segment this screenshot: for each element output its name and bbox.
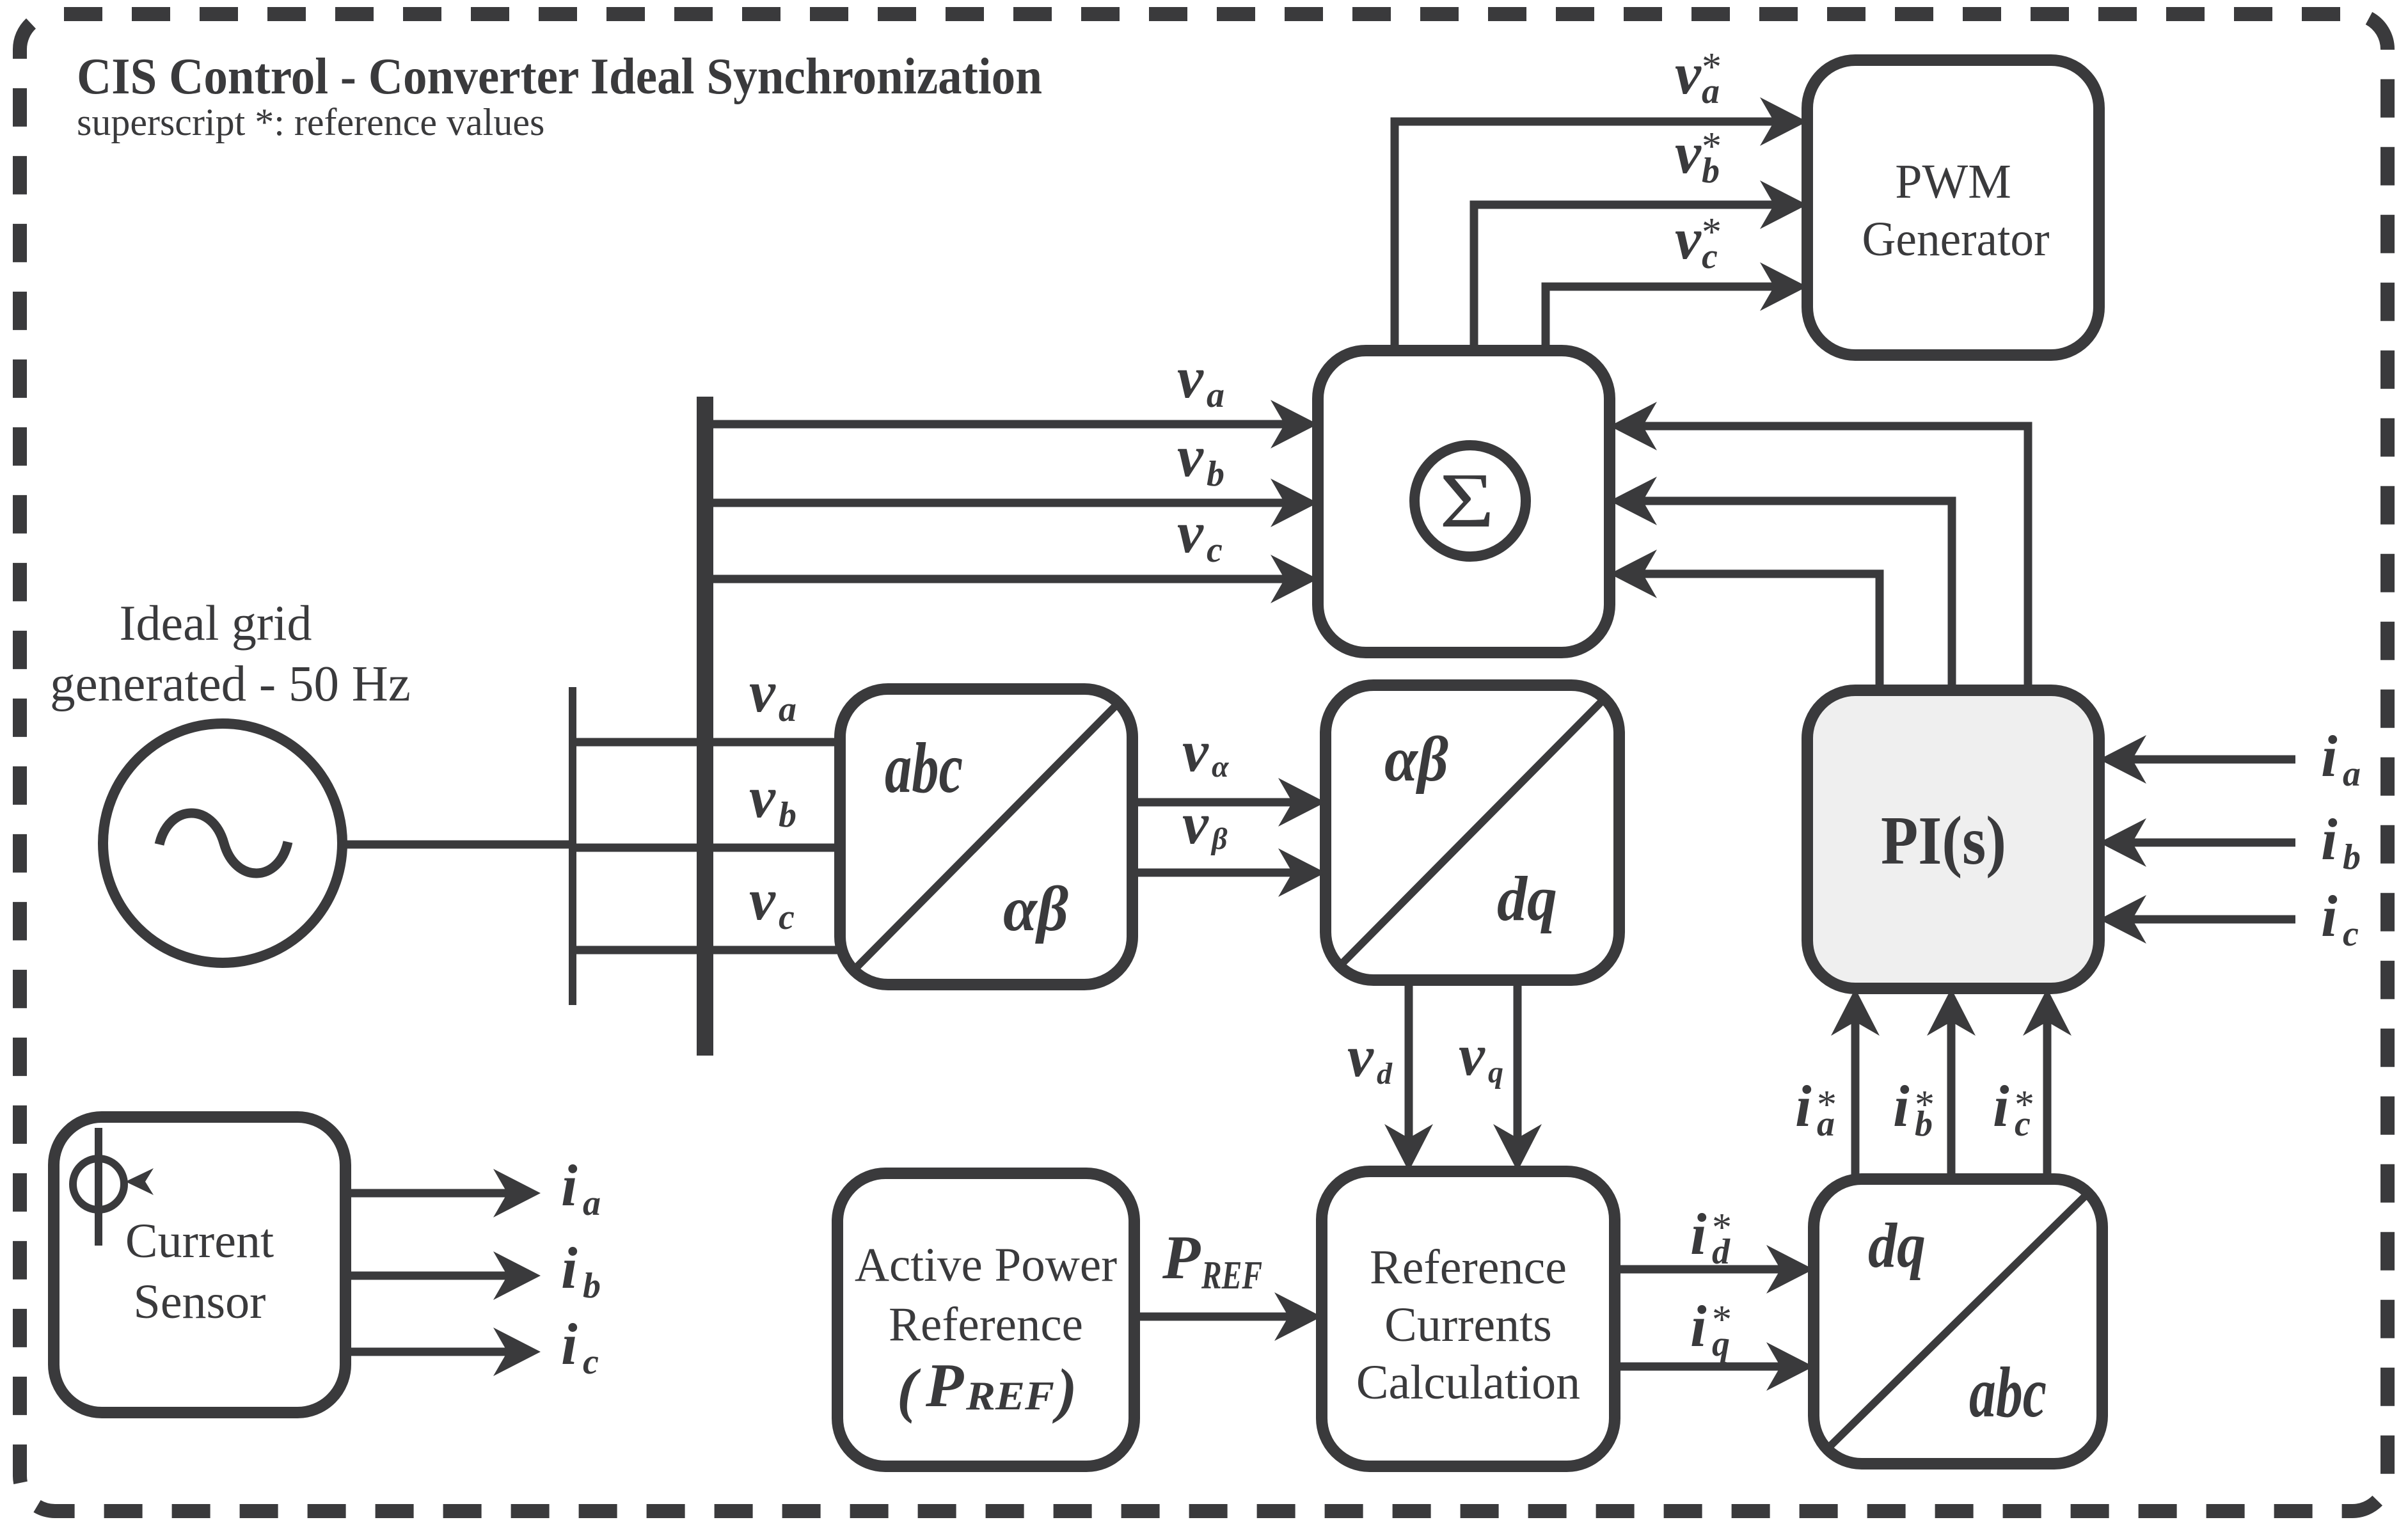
svg-text:REF: REF: [965, 1373, 1054, 1418]
wire sum to PWM v*_b: [1474, 180, 1807, 351]
svg-text:abc: abc: [1969, 1353, 2047, 1432]
node thick bus bar: [697, 397, 713, 1056]
svg-text:Calculation: Calculation: [1356, 1356, 1580, 1409]
label v_b mid: [749, 764, 796, 835]
block abc to alpha-beta transform: [840, 689, 1132, 985]
wire i_b into PI: [2099, 818, 2295, 867]
wire i*_a up to PI: [1831, 988, 1880, 1179]
svg-text:d: d: [1377, 1057, 1393, 1091]
node thin bus bar: [569, 687, 576, 1005]
label v_c mid: [749, 867, 795, 937]
svg-text:v: v: [1182, 718, 1209, 784]
svg-text:*: *: [1702, 210, 1722, 254]
wire i*_d to dq-abc: [1615, 1245, 1814, 1294]
wire i_a into PI: [2099, 735, 2295, 784]
wire bus to abc box phase b: [573, 844, 840, 852]
block Current Sensor: [54, 1117, 345, 1413]
svg-text:Σ: Σ: [1439, 457, 1494, 544]
svg-text:*: *: [1712, 1206, 1732, 1249]
label i*_b: [1893, 1073, 1935, 1144]
svg-text:v: v: [1675, 41, 1702, 106]
svg-text:i: i: [2321, 883, 2338, 949]
wire bus to sum v_c: [705, 555, 1318, 603]
block Active Power Reference: [837, 1173, 1134, 1466]
label i*_q: [1690, 1294, 1732, 1364]
svg-text:v: v: [1177, 424, 1204, 489]
svg-text:v: v: [749, 867, 776, 932]
svg-text:dq: dq: [1497, 863, 1557, 934]
label v_a top: [1177, 345, 1224, 415]
label v*_c: [1675, 206, 1722, 276]
svg-text:*: *: [1712, 1298, 1732, 1342]
wire P_REF arrow: [1134, 1292, 1322, 1341]
svg-text:CIS Control - Converter Ideal: CIS Control - Converter Ideal Synchroniz…: [77, 49, 1042, 105]
wire abc to ab box v_beta: [1132, 848, 1326, 897]
label v_b top: [1177, 424, 1224, 494]
wire bus to abc box phase a: [573, 738, 840, 747]
label v*_a: [1675, 41, 1722, 111]
svg-text:REF: REF: [1201, 1254, 1262, 1297]
label i_b sensor: [561, 1235, 601, 1306]
label v*_b: [1675, 120, 1722, 191]
svg-text:Active Power: Active Power: [855, 1239, 1117, 1292]
svg-text:Current: Current: [125, 1214, 274, 1268]
wire i_c into PI: [2099, 895, 2295, 944]
svg-text:a: a: [2343, 754, 2361, 794]
block PI(s) controller U-PI: [1807, 690, 2099, 988]
wire sum to PWM v*_a: [1395, 97, 1807, 351]
wire v_q down to calc: [1493, 980, 1542, 1171]
svg-text:v: v: [1459, 1022, 1485, 1088]
svg-text:superscript *: reference value: superscript *: reference values: [77, 101, 544, 143]
svg-text:P: P: [1162, 1223, 1201, 1292]
svg-text:*: *: [1817, 1083, 1837, 1127]
wire bus to abc box phase c: [573, 946, 840, 955]
wire PI to sum bottom: [1610, 550, 1880, 690]
label P_REF: [1162, 1223, 1262, 1297]
wire v_d down to calc: [1384, 980, 1433, 1171]
svg-text:i: i: [1690, 1201, 1707, 1267]
label i*_a: [1795, 1073, 1837, 1144]
wire sensor out i_c: [345, 1327, 541, 1376]
block PWM Generator U-PWM: [1807, 60, 2099, 355]
svg-text:dq: dq: [1868, 1210, 1926, 1281]
svg-text:a: a: [583, 1184, 601, 1223]
svg-text:q: q: [1488, 1056, 1503, 1089]
svg-text:i: i: [561, 1235, 578, 1301]
wire sensor out i_a: [345, 1169, 541, 1217]
ideal grid source circle: [50, 595, 411, 963]
svg-text:Reference: Reference: [889, 1298, 1083, 1351]
svg-text:v: v: [1177, 500, 1204, 565]
svg-text:c: c: [779, 898, 795, 937]
wire i*_b up to PI: [1927, 988, 1976, 1179]
label i_a sensor: [561, 1153, 601, 1223]
wire bus to sum v_b: [705, 479, 1318, 527]
svg-text:v: v: [749, 659, 776, 724]
label v_a mid: [749, 659, 796, 729]
wire bus to sum v_a: [705, 400, 1318, 448]
svg-text:*: *: [1702, 125, 1722, 168]
label i_a right: [2321, 724, 2361, 794]
wire PI to sum top: [1610, 402, 2028, 690]
svg-text:*: *: [2015, 1083, 2034, 1127]
svg-text:*: *: [1702, 45, 1722, 89]
svg-text:i: i: [1690, 1294, 1707, 1359]
current source symbol inside Current Sensor: [73, 1128, 154, 1246]
svg-text:Currents: Currents: [1384, 1298, 1552, 1352]
label v_d: [1347, 1024, 1393, 1091]
svg-text:v: v: [1182, 791, 1209, 856]
wire i*_c up to PI: [2023, 988, 2071, 1179]
svg-text:v: v: [1347, 1024, 1374, 1089]
label v_c top: [1177, 500, 1223, 570]
svg-text:v: v: [1675, 206, 1702, 271]
svg-text:β: β: [1210, 822, 1228, 856]
svg-text:i: i: [561, 1311, 578, 1377]
svg-text:b: b: [2343, 837, 2361, 877]
svg-text:i: i: [561, 1153, 578, 1218]
svg-text:α: α: [1212, 750, 1230, 784]
wire sum to PWM v*_c: [1546, 262, 1807, 351]
svg-text:Generator: Generator: [1862, 212, 2050, 266]
svg-text:αβ: αβ: [1003, 873, 1068, 944]
svg-text:generated - 50 Hz: generated - 50 Hz: [50, 656, 411, 712]
wire grid to bus: [342, 841, 573, 849]
svg-text:PWM: PWM: [1895, 155, 2011, 209]
label v_alpha: [1182, 718, 1230, 784]
svg-text:Ideal grid: Ideal grid: [119, 595, 312, 651]
svg-text:v: v: [749, 764, 776, 830]
label i*_d: [1690, 1201, 1732, 1272]
svg-text:Reference: Reference: [1370, 1240, 1567, 1294]
wire abc to ab box v_alpha: [1132, 778, 1326, 827]
svg-text:P: P: [925, 1351, 964, 1420]
svg-text:b: b: [779, 795, 796, 835]
svg-text:c: c: [2343, 914, 2359, 954]
label i_c sensor: [561, 1311, 599, 1382]
svg-text:i: i: [1893, 1073, 1910, 1139]
block alpha-beta to dq transform: [1326, 685, 1619, 980]
block dq to abc transform: [1814, 1179, 2102, 1464]
svg-text:PI(s): PI(s): [1881, 803, 2006, 879]
svg-text:c: c: [1207, 530, 1223, 570]
block summation SUM: [1318, 351, 1610, 653]
svg-text:i: i: [1993, 1073, 2009, 1139]
wire i*_q to dq-abc: [1615, 1342, 1814, 1391]
svg-text:i: i: [1795, 1073, 1812, 1139]
label v_q: [1459, 1022, 1503, 1089]
wire sensor out i_b: [345, 1251, 541, 1300]
svg-text:v: v: [1675, 120, 1702, 186]
label i_b right: [2321, 807, 2361, 877]
svg-text:αβ: αβ: [1384, 724, 1448, 795]
svg-text:c: c: [583, 1342, 599, 1382]
label i_c right: [2321, 883, 2359, 954]
svg-text:Sensor: Sensor: [134, 1275, 266, 1329]
block Reference Currents Calculation: [1322, 1171, 1615, 1466]
svg-text:a: a: [1207, 376, 1224, 415]
wire PI to sum middle: [1610, 477, 1952, 690]
label v_beta: [1182, 791, 1228, 856]
svg-text:b: b: [1207, 454, 1224, 494]
svg-text:v: v: [1177, 345, 1204, 410]
svg-text:abc: abc: [885, 729, 963, 808]
svg-text:*: *: [1915, 1083, 1935, 1127]
label i*_c: [1993, 1073, 2034, 1144]
svg-text:i: i: [2321, 724, 2338, 789]
svg-text:a: a: [779, 690, 796, 729]
svg-text:b: b: [583, 1266, 601, 1306]
svg-text:i: i: [2321, 807, 2338, 872]
